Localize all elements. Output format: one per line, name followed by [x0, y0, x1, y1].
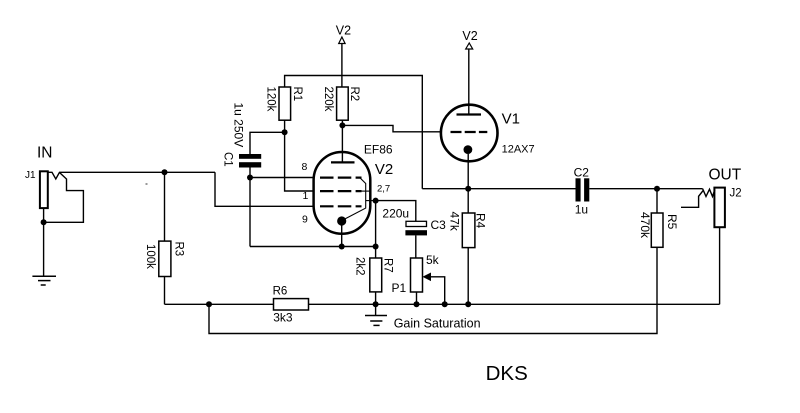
svg-text:R6: R6 [273, 285, 288, 297]
node J1 sleeve [41, 219, 47, 225]
svg-text:470k: 470k [638, 212, 652, 239]
EF86 cathode [337, 216, 346, 225]
svg-text:12AX7: 12AX7 [502, 144, 535, 156]
svg-text:8: 8 [302, 161, 308, 173]
node R7 bus [373, 301, 379, 307]
node input [162, 169, 168, 175]
svg-text:DKS: DKS [486, 362, 528, 385]
capacitor C3 [406, 221, 427, 226]
connector J1 [40, 171, 48, 208]
wire R4 bottom [467, 248, 469, 305]
wire anode through envelope [341, 153, 343, 163]
resistor R5 [651, 213, 663, 247]
svg-text:OUT: OUT [709, 167, 742, 184]
node pin 2,7 [373, 198, 379, 204]
wire to V1 grid [342, 125, 449, 131]
node R1-C1 [282, 129, 288, 135]
node R4 bus [465, 301, 471, 307]
svg-text:R4: R4 [474, 213, 488, 229]
connector J2 [714, 188, 725, 228]
wire P1 bottom [416, 292, 418, 304]
EF86 anode plate [331, 161, 355, 163]
wire 2,7 node to C3 [376, 201, 416, 222]
power V2 supply 1 [341, 44, 343, 88]
EF86 grid row 1 [320, 177, 362, 179]
node C2 R5 [654, 186, 660, 192]
EF86 grid row 2 [320, 190, 362, 192]
node R4 top [465, 186, 471, 192]
svg-text:1u: 1u [575, 202, 588, 216]
wire R4 top [467, 189, 469, 213]
wire cathode down [341, 225, 343, 247]
resistor R1 [279, 87, 291, 120]
wire g2 to tube [250, 177, 314, 179]
ground bus symbol [375, 304, 377, 315]
stray speck [146, 183, 148, 185]
node C1 bottom [247, 175, 253, 181]
svg-text:R2: R2 [348, 87, 360, 102]
svg-text:R3: R3 [173, 242, 185, 257]
V1 cathode [464, 145, 473, 154]
wire R3 top [164, 172, 166, 241]
ground [32, 276, 56, 285]
tube V2 EF86 envelope [314, 152, 371, 234]
svg-text:C1: C1 [222, 152, 234, 167]
node bus R7 [373, 244, 379, 250]
svg-text:C3: C3 [431, 218, 447, 232]
wire J2 tip zigzag [703, 189, 715, 197]
svg-text:V1: V1 [502, 111, 520, 128]
resistor R7 [370, 258, 382, 292]
svg-text:2k2: 2k2 [354, 257, 366, 276]
node R2 bottom [339, 122, 345, 128]
svg-text:J2: J2 [730, 188, 742, 200]
svg-text:2,7: 2,7 [377, 184, 390, 195]
node bus left [206, 301, 212, 307]
svg-text:V2: V2 [462, 29, 477, 43]
resistor R3 [159, 241, 171, 276]
resistor R4 [462, 213, 475, 248]
EF86 internal link [344, 178, 376, 220]
svg-text:R7: R7 [382, 258, 394, 273]
wire R1 bottom to pin 1 [285, 120, 314, 191]
svg-text:1: 1 [303, 190, 309, 202]
wire input riser to pin 9 [215, 172, 314, 206]
V1 grid [451, 131, 488, 133]
wire R5 top [656, 189, 658, 213]
capacitor C1 [239, 154, 261, 159]
tube V1 12AX7 envelope [441, 105, 498, 162]
wire V1 cathode down [467, 154, 469, 189]
wire lower return bus [209, 247, 657, 333]
wire J1 sleeve to ground [43, 208, 45, 276]
svg-text:47k: 47k [448, 212, 462, 232]
svg-text:9: 9 [302, 214, 308, 226]
wire J1 switch arm [44, 173, 84, 223]
resistor R2 [337, 87, 349, 120]
node P1 bus [414, 301, 420, 307]
wire R7 bottom [375, 292, 377, 304]
wire C3 bottom to P1 [415, 235, 417, 258]
wire R3 bottom [164, 277, 166, 305]
node cathode bus [339, 244, 345, 250]
svg-text:5k: 5k [426, 253, 440, 267]
svg-text:J1: J1 [25, 170, 36, 181]
wire C1 top link [250, 132, 285, 154]
svg-text:220k: 220k [322, 87, 334, 112]
svg-text:3k3: 3k3 [273, 310, 293, 324]
svg-text:R1: R1 [291, 87, 303, 102]
svg-text:V2: V2 [375, 161, 393, 178]
node wiper bus [442, 301, 448, 307]
potentiometer P1 [411, 258, 423, 292]
svg-text:100k: 100k [144, 244, 156, 269]
wire 2,7 node down to R7 [375, 201, 377, 258]
svg-text:R5: R5 [665, 214, 679, 230]
svg-text:220u: 220u [382, 206, 409, 220]
svg-text:Gain Saturation: Gain Saturation [394, 317, 481, 331]
wire top bus [285, 76, 423, 189]
P1 wiper arrow [424, 273, 431, 280]
svg-text:1u 250V: 1u 250V [232, 103, 246, 148]
V1 anode plate [457, 113, 482, 115]
svg-text:IN: IN [37, 144, 53, 161]
wire main ground bus [165, 303, 274, 305]
capacitor C2 [576, 178, 581, 201]
svg-text:P1: P1 [392, 281, 407, 295]
resistor R6 [274, 299, 309, 310]
svg-text:EF86: EF86 [364, 143, 393, 157]
wire anode line main [422, 188, 575, 190]
wire C1 bottom [249, 168, 251, 247]
wire J1 tip zigzag [48, 172, 215, 179]
wire V1 anode [468, 105, 470, 115]
wire R2 bottom to anode [341, 120, 343, 162]
svg-text:V2: V2 [336, 24, 351, 38]
wire J2 switch arm [681, 190, 703, 207]
wire grid return bus [250, 246, 376, 248]
svg-text:C2: C2 [574, 165, 590, 179]
svg-text:120k: 120k [265, 87, 277, 112]
EF86 grid row 3 [320, 205, 362, 207]
power V2 supply 2 [468, 49, 470, 105]
